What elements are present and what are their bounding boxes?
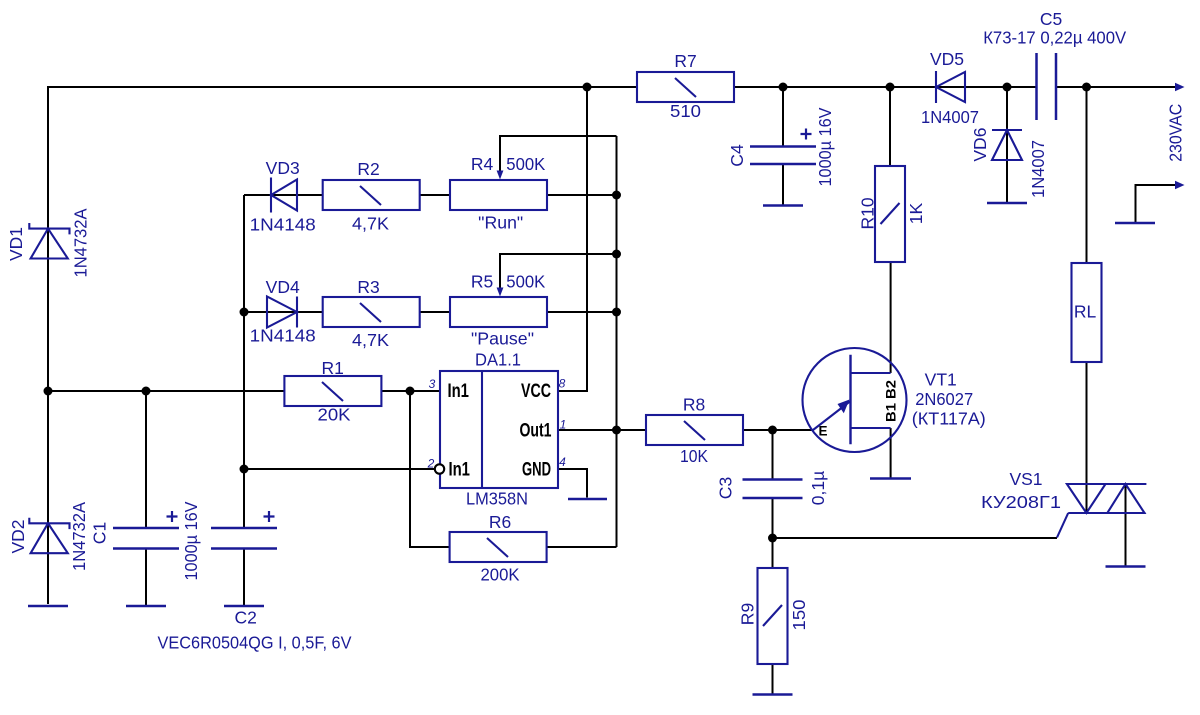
ground (op-amp GND pin 4) xyxy=(568,498,607,501)
svg-text:4,7K: 4,7K xyxy=(352,214,389,234)
node R5 wiper xyxy=(612,250,621,259)
resistor R10 xyxy=(875,166,905,262)
wire triac MT2 to ground xyxy=(1125,484,1127,566)
svg-text:1N4732A: 1N4732A xyxy=(69,502,89,571)
svg-text:К73-17 0,22µ 400V: К73-17 0,22µ 400V xyxy=(983,28,1126,48)
svg-text:C4: C4 xyxy=(727,144,747,167)
wire neutral terminal xyxy=(1136,185,1178,222)
transistor VT1 B1 lead xyxy=(851,427,891,429)
svg-text:VD1: VD1 xyxy=(6,227,26,261)
node R10 bus xyxy=(886,83,895,92)
transistor VT1 base bar xyxy=(849,355,851,445)
svg-text:R2: R2 xyxy=(357,159,379,179)
svg-text:"Run": "Run" xyxy=(478,213,523,233)
svg-text:500K: 500K xyxy=(506,154,545,174)
svg-text:230VAC: 230VAC xyxy=(1166,104,1186,162)
svg-text:1000µ 16V: 1000µ 16V xyxy=(815,107,835,186)
wire C3 bottom leg xyxy=(772,498,774,568)
svg-text:DA1.1: DA1.1 xyxy=(475,350,521,370)
wire RL to triac xyxy=(1086,362,1088,512)
svg-text:1: 1 xyxy=(560,418,567,432)
phase arrow 230VAC xyxy=(1175,83,1185,91)
svg-text:C5: C5 xyxy=(1040,9,1062,29)
svg-text:VD5: VD5 xyxy=(930,49,964,69)
capacitor C5 xyxy=(1037,53,1057,120)
svg-text:C2: C2 xyxy=(235,608,257,628)
svg-text:2: 2 xyxy=(427,457,435,471)
svg-text:200K: 200K xyxy=(481,565,520,585)
zener diode VD1 xyxy=(29,223,69,259)
svg-text:R8: R8 xyxy=(683,395,705,415)
ground (neutral) xyxy=(1115,222,1155,225)
svg-text:2N6027: 2N6027 xyxy=(915,389,973,409)
wire R10 top xyxy=(889,87,891,166)
svg-text:R6: R6 xyxy=(489,512,511,532)
wire VD3-VD4 vertical x244 xyxy=(243,195,245,527)
svg-text:R4: R4 xyxy=(471,154,494,174)
svg-text:3: 3 xyxy=(429,377,436,391)
node inverting input xyxy=(240,465,249,474)
svg-text:R9: R9 xyxy=(738,603,758,625)
svg-text:In1: In1 xyxy=(448,460,470,481)
wire VCC to top bus xyxy=(558,87,587,391)
svg-text:1N4007: 1N4007 xyxy=(921,107,979,127)
wire R6 left leg xyxy=(410,391,450,547)
wire R8 right to emitter xyxy=(743,429,813,431)
wire C3 top leg xyxy=(772,430,774,479)
wire top bus left xyxy=(48,87,637,604)
svg-text:C3: C3 xyxy=(716,477,736,499)
ground (VD2) xyxy=(28,605,68,608)
resistor R7 xyxy=(637,72,734,102)
svg-text:VD2: VD2 xyxy=(8,519,28,553)
resistor R2 xyxy=(323,180,420,210)
ground (VD6) xyxy=(987,202,1027,205)
wire R5 wiper xyxy=(500,254,617,289)
resistor R3 xyxy=(323,297,420,327)
wire R10 bottom to B2 xyxy=(890,262,892,373)
svg-text:150: 150 xyxy=(789,599,809,630)
svg-text:0,1µ: 0,1µ xyxy=(808,471,828,505)
wire top bus right of C5 to phase arrow xyxy=(1056,86,1177,88)
wire top bus right of R7 xyxy=(734,86,1037,88)
svg-text:"Pause": "Pause" xyxy=(471,329,534,349)
ground (triac MT2) xyxy=(1106,565,1146,568)
svg-text:VT1: VT1 xyxy=(925,370,957,390)
node VCC bus xyxy=(583,83,592,92)
wire R9 to ground xyxy=(772,664,774,694)
transistor VT1 B2 lead xyxy=(851,372,891,374)
wire R5 right xyxy=(547,311,617,313)
svg-text:R10: R10 xyxy=(858,197,878,229)
zener diode VD2 xyxy=(29,518,69,554)
svg-text:VD3: VD3 xyxy=(266,158,300,178)
svg-text:1N4732A: 1N4732A xyxy=(71,208,91,277)
transistor Q VT1 circle xyxy=(803,348,907,452)
potentiometer R5 xyxy=(450,288,547,328)
svg-text:VD4: VD4 xyxy=(266,277,300,297)
svg-text:C1: C1 xyxy=(90,522,110,544)
svg-text:Out1: Out1 xyxy=(520,421,552,442)
ground (C2) xyxy=(224,605,264,608)
node RL bus xyxy=(1082,83,1091,92)
svg-text:VS1: VS1 xyxy=(1009,469,1042,489)
svg-text:R7: R7 xyxy=(674,51,696,71)
wire RL branch xyxy=(1086,87,1088,263)
wire R3 to R5 xyxy=(420,311,450,313)
ground (R9) xyxy=(753,693,793,696)
wire VD3 row xyxy=(244,194,323,196)
wire R6 right xyxy=(547,546,617,548)
resistor R6 xyxy=(450,532,547,562)
svg-text:1000µ 16V: 1000µ 16V xyxy=(181,501,201,580)
wire VD4 row xyxy=(244,311,323,313)
node Out1 xyxy=(612,426,621,435)
ground (C4) xyxy=(763,204,803,207)
node C1 mid bus xyxy=(142,387,151,396)
resistor R9 xyxy=(758,568,788,664)
svg-text:In1: In1 xyxy=(447,381,469,402)
svg-text:1N4007: 1N4007 xyxy=(1028,140,1048,198)
node R5 right xyxy=(612,308,621,317)
resistor R8 xyxy=(646,415,743,445)
wire C1 below to ground xyxy=(145,549,147,606)
node R8 emitter xyxy=(768,426,777,435)
svg-text:20K: 20K xyxy=(318,405,351,425)
svg-text:1K: 1K xyxy=(906,202,926,224)
capacitor C1 xyxy=(113,511,179,549)
diode VD4 xyxy=(267,297,297,328)
wire C2 below to ground xyxy=(243,549,245,606)
potentiometer R4 xyxy=(450,171,547,211)
diode VD5 xyxy=(936,71,965,103)
node R1 output xyxy=(406,387,415,396)
svg-text:R5: R5 xyxy=(471,272,493,292)
wire inverting input row xyxy=(244,468,435,470)
wire B1 to ground xyxy=(890,428,892,478)
ground (C1) xyxy=(126,605,166,608)
node VD2 mid bus xyxy=(44,387,53,396)
node VD6 bus xyxy=(1003,83,1012,92)
wire R1 right to pin3 xyxy=(381,390,440,392)
wire mid bus y391 xyxy=(48,390,284,392)
triac VS1 xyxy=(1057,484,1146,538)
wire VD6 branch xyxy=(1006,87,1008,202)
wire C1 branch xyxy=(145,391,147,527)
capacitor C3 xyxy=(743,480,803,499)
svg-text:VD6: VD6 xyxy=(970,128,990,162)
svg-text:КУ208Г1: КУ208Г1 xyxy=(981,492,1061,512)
node C4 bus xyxy=(779,83,788,92)
svg-text:1N4148: 1N4148 xyxy=(250,215,316,235)
svg-text:B1 B2: B1 B2 xyxy=(884,380,899,422)
diode VD6 xyxy=(992,130,1022,160)
neutral arrow xyxy=(1175,181,1185,189)
supercapacitor C2 xyxy=(211,511,277,549)
svg-text:4,7K: 4,7K xyxy=(352,330,389,350)
wire x616 vertical xyxy=(616,136,618,547)
svg-text:LM358N: LM358N xyxy=(466,489,528,509)
svg-text:R1: R1 xyxy=(322,358,344,378)
capacitor C4 xyxy=(750,129,816,165)
wire opamp GND xyxy=(558,469,587,498)
svg-text:8: 8 xyxy=(559,377,566,391)
wire C4 to ground xyxy=(782,164,784,205)
node VD4 anode xyxy=(240,308,249,317)
svg-text:VEC6R0504QG I, 0,5F, 6V: VEC6R0504QG I, 0,5F, 6V xyxy=(158,633,352,653)
wire R2 to R4 xyxy=(420,194,450,196)
svg-text:500K: 500K xyxy=(506,272,545,292)
wire R4 right xyxy=(547,194,617,196)
pin 2 inverting circle xyxy=(435,464,444,473)
svg-text:VCC: VCC xyxy=(521,381,551,402)
svg-text:R3: R3 xyxy=(357,277,379,297)
svg-text:RL: RL xyxy=(1074,302,1097,322)
op-amp U DA1.1 box xyxy=(440,371,558,488)
node gate xyxy=(768,534,777,543)
node R4 right xyxy=(612,191,621,200)
wire C4 branch xyxy=(782,87,784,146)
svg-text:(КТ117А): (КТ117А) xyxy=(912,409,986,429)
svg-text:4: 4 xyxy=(559,455,566,469)
wire gate row xyxy=(773,537,1058,539)
svg-text:E: E xyxy=(818,424,827,439)
resistor R1 xyxy=(284,376,381,406)
svg-text:1N4148: 1N4148 xyxy=(250,326,316,346)
wire Out1 to R8 xyxy=(558,429,646,431)
ground (VT1 B1) xyxy=(870,477,911,480)
transistor VT1 emitter arrow xyxy=(813,400,851,431)
svg-text:10K: 10K xyxy=(680,446,708,466)
svg-text:510: 510 xyxy=(670,101,701,121)
wire R4 wiper xyxy=(500,136,617,171)
resistor RL xyxy=(1072,263,1102,362)
diode VD3 xyxy=(271,178,297,213)
svg-text:GND: GND xyxy=(522,460,551,481)
